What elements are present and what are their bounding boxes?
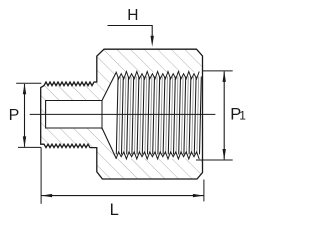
svg-text:H: H xyxy=(127,7,138,24)
svg-text:P: P xyxy=(9,107,20,124)
svg-text:L: L xyxy=(110,201,119,219)
svg-text:1: 1 xyxy=(239,109,246,123)
